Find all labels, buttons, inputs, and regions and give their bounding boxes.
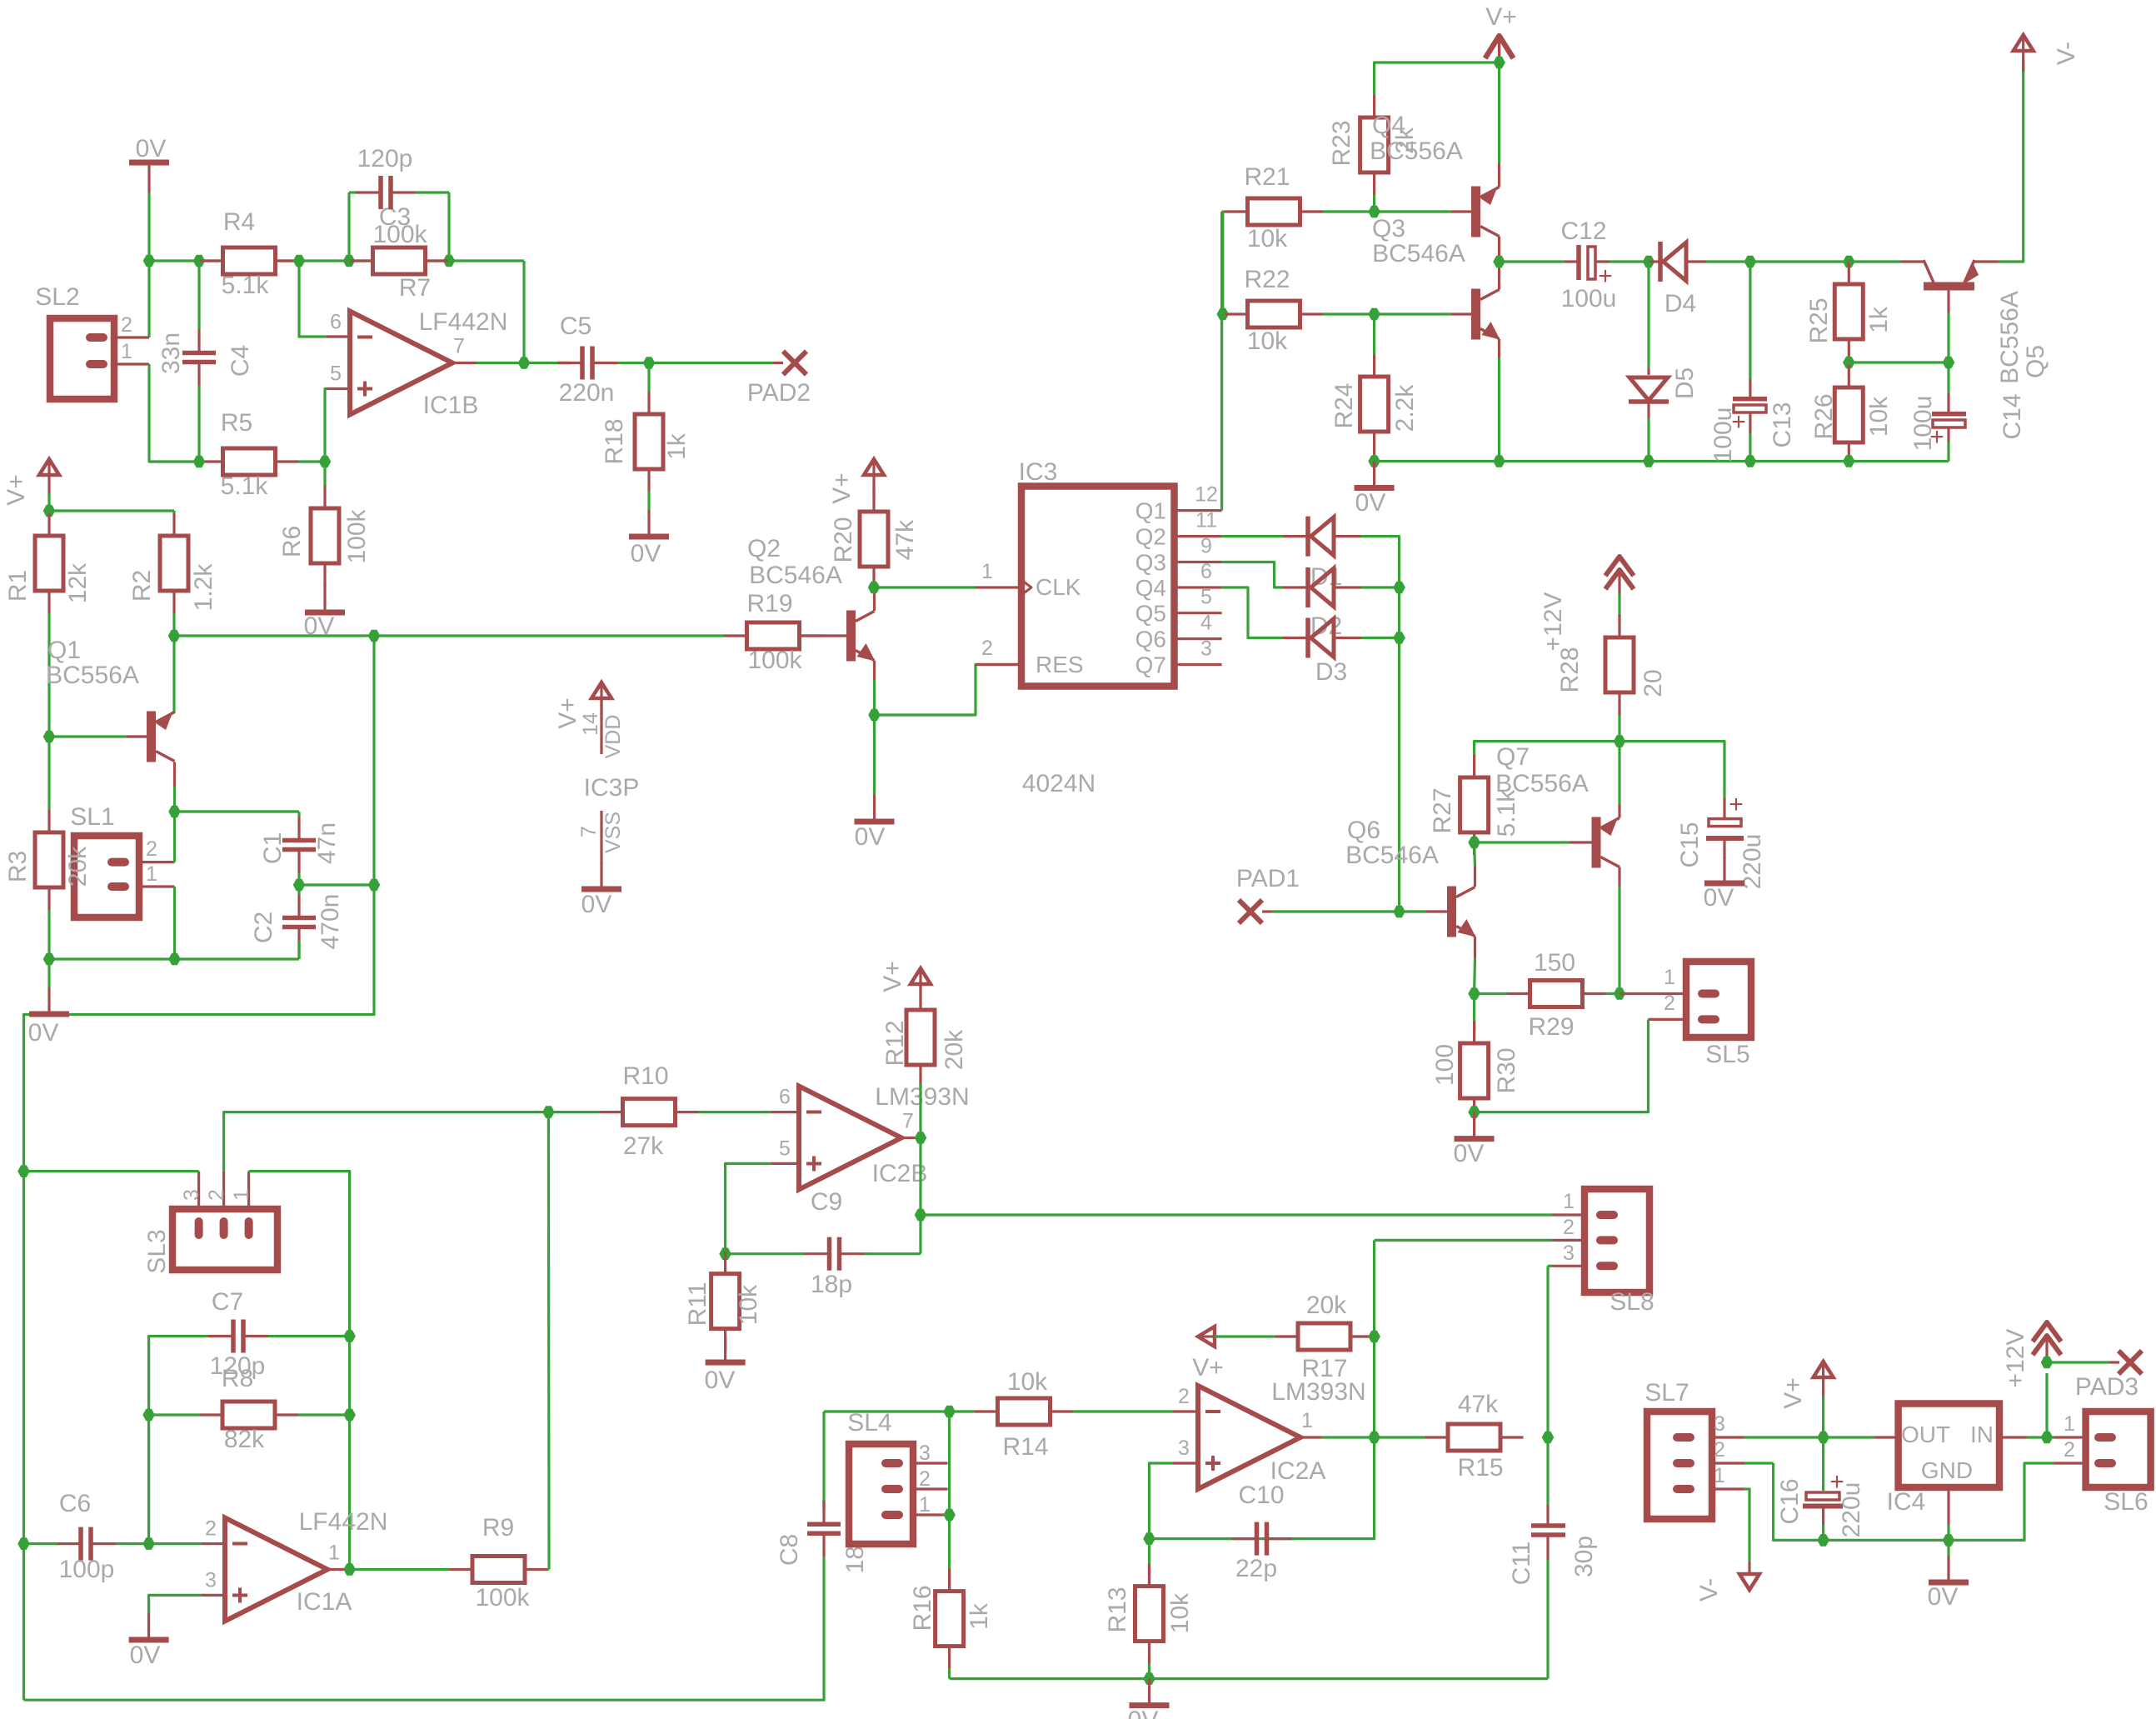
junction C10/R13/pin3	[1143, 1532, 1155, 1545]
wire R13 column	[1148, 1539, 1150, 1575]
wire C7 right	[274, 1335, 350, 1337]
svg-text:Q7: Q7	[1496, 743, 1530, 771]
svg-text:10k: 10k	[1865, 396, 1893, 437]
svg-text:47n: 47n	[313, 822, 341, 864]
resistor R1 12k	[47, 511, 50, 513]
wire SL7 pin3 to OUT	[1744, 1436, 1874, 1438]
op-amp IC1A pin2 lead	[202, 1542, 225, 1545]
junction R15/C11/SL8pin3	[1542, 1432, 1555, 1444]
junction R26/0V	[1843, 455, 1855, 467]
svg-text:2: 2	[981, 637, 993, 660]
wire C11 to bottom rail	[1546, 1560, 1549, 1679]
junction Q5 base/C14	[1943, 357, 1955, 369]
wire return to C6	[24, 1542, 58, 1545]
power V- at SL7	[1739, 1574, 1759, 1590]
resistor R19 100k	[722, 634, 725, 637]
svg-text:1k: 1k	[663, 432, 691, 460]
wire to PAD3	[2047, 1361, 2109, 1363]
transistor Q2 emitter lead	[873, 661, 876, 680]
junction +12V/PAD3	[2041, 1357, 2054, 1369]
junction V+/C16/OUT	[1817, 1432, 1829, 1444]
junction R25/R26	[1843, 357, 1855, 369]
capacitor C1 47n	[297, 812, 300, 817]
svg-text:Q4: Q4	[1135, 575, 1166, 601]
connector SL4	[849, 1444, 913, 1544]
wire SL8 pin3 corner	[1548, 1265, 1552, 1267]
junction rail to emitter	[168, 630, 181, 642]
wire long rail to R19	[174, 634, 724, 637]
svg-text:OUT: OUT	[1901, 1422, 1950, 1447]
svg-text:V+: V+	[2, 474, 30, 506]
transistor Q3 collector lead	[1498, 262, 1500, 290]
power +12V at PAD3	[2033, 1322, 2061, 1342]
svg-text:1: 1	[1563, 1190, 1575, 1213]
junction R1/R3/base	[43, 731, 56, 743]
transistor Q2	[846, 611, 856, 662]
wire return down	[22, 1172, 25, 1544]
svg-text:2: 2	[1563, 1216, 1575, 1239]
transistor Q3 base lead	[1451, 312, 1471, 315]
svg-text:100p: 100p	[59, 1556, 115, 1583]
wire C9 bottom path	[871, 1252, 921, 1255]
transistor Q7 emitter lead	[1618, 805, 1620, 818]
wire C15 branch	[1619, 742, 1724, 797]
wire C15 to gnd	[1723, 857, 1725, 858]
svg-text:3: 3	[180, 1189, 203, 1201]
svg-text:R6: R6	[278, 526, 306, 557]
svg-text:Q2: Q2	[747, 535, 781, 562]
svg-text:0V: 0V	[631, 540, 661, 567]
IC3 pin 12 lead	[1175, 509, 1222, 512]
svg-text:5.1k: 5.1k	[222, 272, 270, 299]
resistor R25 1k	[1848, 260, 1850, 262]
svg-text:10k: 10k	[1247, 327, 1288, 355]
pad PAD3	[2119, 1351, 2142, 1374]
svg-text:R29: R29	[1528, 1013, 1574, 1041]
op-amp IC1B output lead	[452, 362, 477, 364]
wire R9 up to R10 node	[547, 1112, 551, 1570]
junction R20/Q2 collector/CLK	[868, 582, 881, 594]
wire to Q3 base	[1375, 312, 1451, 315]
wire R3 gnd stem	[47, 959, 50, 987]
svg-text:100u: 100u	[1909, 396, 1937, 452]
junction C5/R18/PAD2	[643, 357, 656, 369]
resistor R16 1k	[948, 1569, 951, 1592]
IC4 IN lead	[1999, 1436, 2027, 1438]
op-amp IC2B pin6 lead	[771, 1111, 799, 1113]
svg-text:2: 2	[1664, 992, 1675, 1015]
diode D1	[1305, 517, 1310, 557]
svg-text:Q7: Q7	[1135, 652, 1166, 678]
junction railA/R4-right	[293, 255, 306, 267]
wire SL2 pin2 to railA	[147, 261, 150, 337]
wire R25-R26 to Q5 base	[1849, 361, 1949, 363]
wire +12V stem	[2045, 1373, 2048, 1437]
wire bottom 0V rail	[950, 1677, 1548, 1680]
diode D1 leads	[1283, 535, 1306, 537]
junction C16/gnd rail	[1817, 1534, 1829, 1547]
junction C1/C2/down	[293, 879, 306, 892]
wire SL8 pin2 corner	[1375, 1239, 1552, 1242]
svg-text:2: 2	[121, 313, 132, 337]
junction Q3/Q4 collectors	[1493, 256, 1505, 268]
wire D4 to C13 node	[1706, 260, 1849, 262]
transistor Q7 collector lead	[1618, 867, 1620, 887]
svg-text:R2: R2	[128, 570, 156, 602]
svg-text:R11: R11	[684, 1282, 711, 1327]
wire R30 column	[1473, 994, 1475, 1032]
svg-text:10k: 10k	[1166, 1592, 1194, 1633]
IC3 pin 3 lead	[1175, 663, 1222, 666]
wire SL4 pins vertical	[948, 1412, 951, 1592]
wire D1 to bus	[1361, 537, 1400, 912]
svg-text:12k: 12k	[64, 562, 92, 603]
svg-text:SL7: SL7	[1644, 1379, 1689, 1407]
ground 0V at IC4	[1947, 1556, 1949, 1581]
svg-text:1k: 1k	[1865, 306, 1893, 333]
power V+ arrow at R17	[1198, 1327, 1215, 1347]
svg-text:R5: R5	[221, 409, 252, 437]
wire R12 to output	[919, 1083, 921, 1138]
capacitor C15 220u	[1723, 797, 1725, 817]
svg-text:R13: R13	[1104, 1587, 1131, 1632]
svg-text:2: 2	[1178, 1385, 1190, 1408]
junction output/feedback	[518, 357, 531, 369]
svg-text:0V: 0V	[28, 1019, 59, 1047]
svg-text:C12: C12	[1560, 217, 1606, 245]
wire Q7 emitter up	[1618, 742, 1620, 805]
transistor Q5 collector lead	[1900, 260, 1924, 262]
wire to R27 top	[1475, 742, 1619, 757]
wire C16 to gnd rail	[1822, 1525, 1824, 1540]
wire SL8pin2 vertical	[1150, 1240, 1375, 1538]
svg-text:R4: R4	[223, 208, 255, 236]
resistor R26 10k	[1848, 362, 1850, 365]
svg-text:SL3: SL3	[143, 1229, 171, 1273]
wire SL2 pin1 down to R5 node	[149, 364, 199, 462]
svg-text:V+: V+	[828, 472, 856, 504]
capacitor C13 100u	[1749, 379, 1751, 397]
wire output to C5	[477, 362, 571, 364]
junction railA/C3-right-R7	[443, 255, 456, 267]
transistor Q2 collector lead	[873, 587, 876, 611]
svg-text:2: 2	[1714, 1438, 1725, 1462]
svg-text:R9: R9	[482, 1514, 514, 1542]
svg-text:3: 3	[1714, 1412, 1725, 1436]
svg-text:PAD3: PAD3	[2075, 1373, 2139, 1401]
junction IC1A out	[343, 1563, 356, 1576]
svg-text:C2: C2	[250, 912, 277, 943]
IC IC4 regulator box	[1899, 1404, 1999, 1488]
resistor R21 10k	[1223, 210, 1225, 212]
op-amp IC1B pin5 lead	[327, 387, 350, 390]
wire SL7 pin2 stub	[1744, 1462, 1774, 1464]
junction Q6emitter/R29/R30	[1468, 987, 1480, 1000]
svg-text:0V: 0V	[855, 823, 886, 851]
wire return to bottom rail	[22, 1544, 25, 1701]
wire Q6 emitter down	[1473, 958, 1476, 994]
wire SL7 pin1 to V-	[1744, 1489, 1749, 1562]
svg-text:V+: V+	[554, 697, 581, 729]
wire V+ stem	[1822, 1397, 1824, 1437]
svg-text:IC4: IC4	[1887, 1488, 1926, 1516]
svg-text:1: 1	[328, 1542, 340, 1565]
svg-text:5.1k: 5.1k	[221, 472, 269, 500]
svg-text:2: 2	[205, 1517, 217, 1541]
op-amp IC2A output lead	[1300, 1436, 1322, 1438]
svg-text:R19: R19	[746, 590, 792, 617]
wire feedback vertical	[348, 1172, 351, 1570]
resistor R14 10k	[973, 1410, 975, 1412]
svg-text:3: 3	[205, 1569, 217, 1592]
svg-text:Q5: Q5	[1135, 601, 1166, 627]
svg-text:SL6: SL6	[2104, 1488, 2148, 1516]
wire SL5 pin2 to R30 node	[1475, 1019, 1649, 1112]
svg-text:C3: C3	[379, 203, 411, 231]
svg-text:5: 5	[779, 1137, 791, 1161]
svg-text:7: 7	[902, 1110, 914, 1133]
resistor R11 10k	[724, 1252, 726, 1254]
svg-text:C11: C11	[1508, 1542, 1535, 1586]
svg-text:Q5: Q5	[2022, 345, 2049, 378]
connector SL5 pin1 lead	[1619, 992, 1686, 995]
wire pin11 to D1	[1222, 535, 1283, 537]
svg-text:1: 1	[1714, 1464, 1725, 1487]
resistor R20 47k	[872, 487, 875, 490]
junction C13/0V	[1744, 455, 1757, 467]
svg-text:C7: C7	[212, 1288, 243, 1316]
connector SL5 pin2 lead	[1649, 1018, 1687, 1021]
ground 0V at R18	[647, 510, 650, 535]
svg-text:C5: C5	[560, 312, 591, 340]
svg-text:100: 100	[1431, 1044, 1459, 1086]
wire D3 to bus	[1361, 637, 1400, 639]
svg-text:SL1: SL1	[70, 803, 114, 831]
wire Q7 collector down	[1618, 886, 1620, 994]
transistor Q3 emitter lead	[1498, 339, 1500, 358]
resistor R6 100k	[323, 462, 326, 486]
transistor Q4 base lead	[1451, 210, 1471, 212]
pad PAD3 lead	[2109, 1361, 2119, 1363]
svg-text:BC546A: BC546A	[1372, 240, 1465, 267]
svg-text:14: 14	[579, 712, 602, 736]
wire PAD1 to Q6 base	[1272, 910, 1426, 912]
svg-text:GND: GND	[1921, 1457, 1973, 1483]
junction R29/SL5pin1/Q7coll	[1614, 987, 1626, 1000]
op-amp IC2B	[799, 1087, 901, 1190]
svg-text:PAD1: PAD1	[1236, 865, 1300, 892]
svg-text:5: 5	[330, 362, 342, 386]
svg-text:BC556A: BC556A	[1996, 291, 2024, 384]
capacitor C8 180p	[822, 1501, 825, 1510]
transistor Q4 emitter lead	[1498, 163, 1500, 187]
junction SL1 pin1/rail	[168, 953, 181, 966]
junction IC4 GND/rail	[1943, 1534, 1955, 1547]
svg-text:VDD: VDD	[601, 715, 625, 759]
svg-text:100k: 100k	[475, 1584, 530, 1612]
IC3 pin2 RES lead	[976, 663, 1021, 666]
wire base to Q7	[1475, 841, 1570, 843]
wire R8 left stub	[149, 1413, 197, 1416]
svg-text:RES: RES	[1036, 652, 1084, 677]
wire IN to SL6	[2027, 1436, 2054, 1438]
svg-text:R18: R18	[601, 418, 628, 464]
svg-text:1: 1	[919, 1493, 931, 1517]
ground 0V at R30	[1473, 1112, 1475, 1137]
wire output down	[919, 1138, 921, 1254]
svg-text:IC3P: IC3P	[584, 774, 640, 802]
junction R8 left	[142, 1409, 155, 1422]
transistor Q5	[1924, 282, 1974, 291]
wire plus input	[726, 1163, 771, 1253]
connector SL2	[50, 318, 114, 399]
resistor R17 20k	[1270, 1335, 1275, 1337]
junction R21-R22 left	[1217, 308, 1230, 321]
IC3P VSS pin	[600, 811, 602, 864]
svg-text:11: 11	[1195, 509, 1217, 532]
diode D3	[1305, 618, 1310, 658]
svg-text:6: 6	[330, 311, 342, 334]
wire V+ to R23	[1375, 62, 1500, 87]
svg-text:+12V: +12V	[1540, 592, 1567, 652]
wire Q5 emitter to V-	[1999, 58, 2024, 262]
junction C13 top	[1744, 256, 1757, 268]
wire R5 to opamp node	[299, 460, 325, 462]
svg-text:VSS: VSS	[601, 812, 625, 853]
transistor Q6 collector lead	[1474, 867, 1476, 887]
svg-text:6: 6	[1200, 560, 1212, 583]
junction R30/SL5pin2/GND	[1468, 1106, 1480, 1118]
op-amp IC2A	[1198, 1386, 1300, 1489]
wire bottom node rail	[49, 957, 299, 960]
svg-text:V+: V+	[1779, 1377, 1807, 1409]
resistor R29 150	[1475, 992, 1507, 995]
svg-text:100u: 100u	[1561, 285, 1617, 312]
wire Q1 collector down	[173, 787, 176, 812]
svg-text:IC1A: IC1A	[297, 1588, 352, 1616]
wire C6 to minus node	[122, 1542, 202, 1545]
resistor R5 5.1k	[199, 460, 200, 462]
wire R21 left corner	[1223, 212, 1225, 314]
wire C12 to D4	[1610, 260, 1649, 262]
svg-text:2: 2	[205, 1189, 228, 1201]
ground 0V at SL2 top	[129, 160, 169, 166]
svg-text:0V: 0V	[130, 1642, 161, 1669]
svg-text:V-: V-	[1695, 1578, 1723, 1602]
svg-text:100u: 100u	[1709, 407, 1737, 463]
wire rail R14/SL4/C8	[824, 1410, 973, 1412]
resistor R22 10k	[1223, 312, 1225, 315]
svg-text:PAD2: PAD2	[747, 379, 811, 407]
svg-text:R7: R7	[399, 274, 431, 302]
junction SL4 pin1	[943, 1509, 956, 1522]
transistor Q5 base lead	[1947, 290, 1949, 312]
IC3P VDD pin	[600, 698, 602, 754]
wire C3 left vertical	[347, 192, 350, 261]
svg-text:SL5: SL5	[1705, 1041, 1749, 1068]
resistor R2 1.2k	[172, 511, 175, 513]
resistor R18 1k	[647, 363, 650, 392]
wire SL3 pin1 to C7 node	[249, 1172, 350, 1337]
transistor Q4 collector lead	[1498, 237, 1500, 262]
transistor Q2 base lead	[799, 634, 846, 637]
wire C2 bottom	[297, 941, 300, 959]
wire plus input IC2A	[1150, 1463, 1174, 1539]
transistor Q1 base lead	[127, 735, 147, 737]
svg-text:R24: R24	[1330, 382, 1358, 428]
IC4 GND lead	[1947, 1487, 1949, 1525]
IC3 pin 4 lead	[1175, 637, 1222, 640]
svg-text:D5: D5	[1671, 367, 1699, 399]
svg-text:R8: R8	[222, 1365, 253, 1392]
op-amp IC1B	[350, 312, 452, 415]
svg-text:0V: 0V	[136, 135, 167, 162]
junction R13/bottom rail	[1143, 1672, 1155, 1685]
svg-text:LM393N: LM393N	[875, 1083, 969, 1111]
diode D5 leads	[1647, 368, 1649, 375]
resistor R28 20	[1618, 615, 1620, 617]
junction collector/C1/SL1	[168, 806, 181, 818]
junction C6/return	[17, 1537, 30, 1550]
wire C5 to PAD2	[625, 362, 773, 364]
svg-text:Q1: Q1	[1135, 498, 1166, 524]
svg-text:C16: C16	[1776, 1478, 1804, 1524]
op-amp IC2B pin5 lead	[771, 1162, 799, 1165]
power V+ at R12	[911, 968, 931, 984]
svg-text:BC546A: BC546A	[1345, 842, 1439, 869]
svg-text:1: 1	[146, 862, 157, 886]
junction C8wire/R14/SL4	[943, 1406, 956, 1418]
junction D5/0V	[1643, 455, 1655, 467]
wire plus from gnd	[149, 1595, 202, 1615]
junction emitter/RES	[868, 709, 881, 722]
connector SL3	[172, 1209, 277, 1270]
svg-text:0V: 0V	[1128, 1707, 1159, 1719]
IC3 pin 11 lead	[1175, 535, 1222, 537]
ground 0V at C15	[1723, 857, 1725, 882]
junction bus/PAD1/Q6	[1393, 906, 1405, 918]
svg-text:R25: R25	[1805, 297, 1833, 343]
svg-text:R27: R27	[1429, 787, 1456, 833]
diode D4	[1658, 242, 1663, 282]
op-amp IC1B pin6 lead	[327, 335, 350, 337]
wire vertical rail down from railA	[372, 636, 375, 885]
svg-text:20k: 20k	[64, 846, 92, 887]
junction C9/R11/pin5	[719, 1247, 731, 1260]
junction R22/R24/Q3base	[1368, 308, 1380, 321]
junction Q3emitter/0V	[1493, 455, 1505, 467]
wire pin6 to D3	[1222, 587, 1283, 638]
wire 0V rail right section	[1375, 460, 1949, 462]
pad PAD2	[783, 352, 806, 375]
IC U1 IC3 4024N box	[1021, 487, 1175, 687]
diode D4 leads	[1649, 260, 1659, 262]
ground 0V at R3	[47, 987, 50, 1012]
svg-text:1k: 1k	[966, 1602, 993, 1630]
svg-text:R15: R15	[1457, 1454, 1503, 1482]
resistor R15 47k	[1423, 1436, 1425, 1438]
wire Q1 output to R21/R22	[1220, 212, 1223, 511]
IC3 pin1 CLK lead	[976, 586, 1021, 588]
junction R10/R9 feedback	[542, 1106, 555, 1118]
svg-text:27k: 27k	[623, 1132, 664, 1160]
svg-text:20k: 20k	[1306, 1292, 1347, 1319]
junction V+/R1/R2	[43, 505, 56, 517]
svg-text:V+: V+	[1485, 3, 1517, 31]
wire IC4 GND to rail	[1947, 1525, 1949, 1540]
diode D5	[1629, 377, 1668, 401]
wire SL1 pin1 down	[173, 887, 176, 959]
